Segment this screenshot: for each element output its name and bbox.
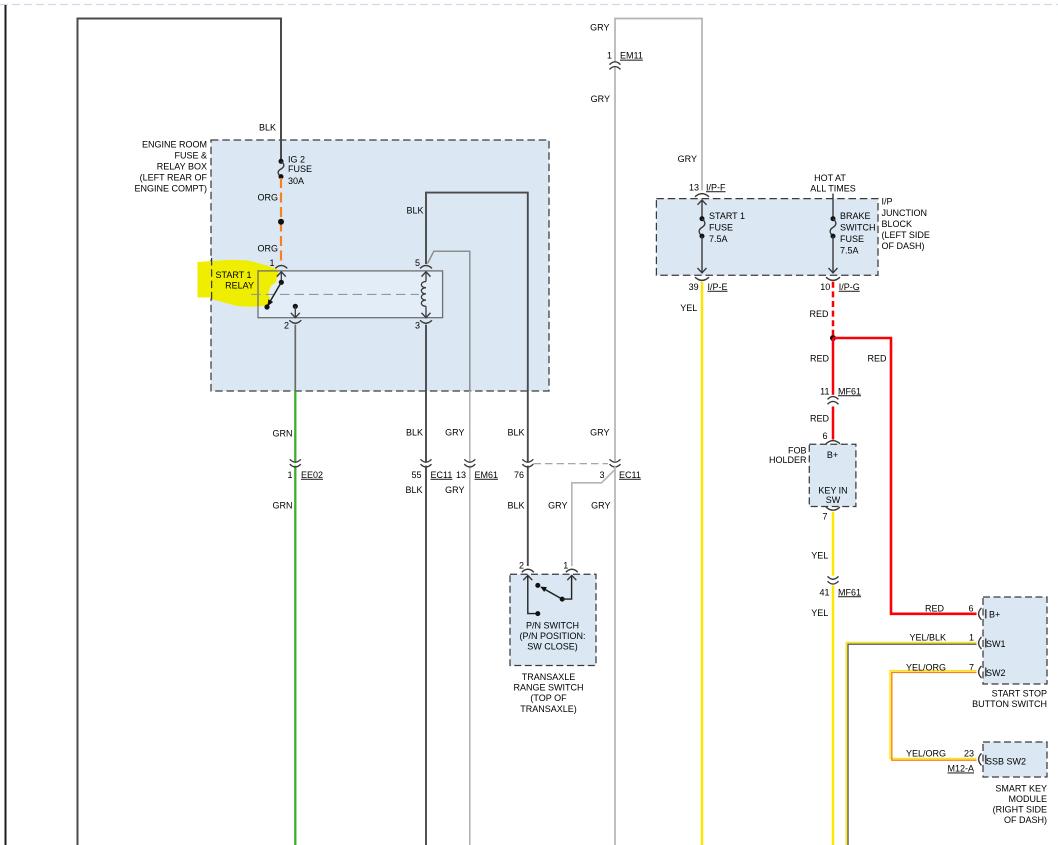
svg-text:BLK: BLK bbox=[507, 428, 524, 438]
svg-text:7: 7 bbox=[822, 512, 827, 522]
junction on ORG wire bbox=[278, 219, 284, 225]
wire BLK relay pin5 to transaxle switch pin2 bbox=[406, 193, 527, 566]
svg-text:GRY: GRY bbox=[445, 428, 464, 438]
wire GRY EC11-3 branch to transaxle pin 1 bbox=[548, 470, 615, 567]
svg-text:MODULE: MODULE bbox=[1008, 794, 1047, 804]
svg-text:OF DASH): OF DASH) bbox=[1004, 815, 1047, 825]
relay START 1 RELAY border and name bbox=[215, 270, 442, 318]
connector EC11 pin 55 bbox=[411, 459, 452, 480]
svg-text:RANGE SWITCH: RANGE SWITCH bbox=[513, 683, 583, 693]
svg-text:ENGINE COMPT): ENGINE COMPT) bbox=[134, 184, 207, 194]
connector M12-A pin 23 bbox=[947, 753, 985, 773]
svg-text:FOB: FOB bbox=[788, 446, 807, 456]
svg-text:11: 11 bbox=[820, 386, 829, 396]
FOB holder pin 6 bbox=[822, 431, 840, 444]
svg-text:YEL: YEL bbox=[811, 608, 828, 618]
svg-text:TRANSAXLE: TRANSAXLE bbox=[522, 672, 576, 682]
svg-text:BLK: BLK bbox=[405, 485, 422, 495]
svg-text:7.5A: 7.5A bbox=[709, 234, 728, 244]
svg-text:EM11: EM11 bbox=[620, 51, 643, 61]
svg-text:TRANSAXLE): TRANSAXLE) bbox=[520, 704, 577, 714]
svg-text:START STOP: START STOP bbox=[992, 689, 1047, 699]
connector EC11 pin 3 bbox=[599, 459, 640, 480]
svg-text:(P/N POSITION:: (P/N POSITION: bbox=[519, 631, 585, 641]
svg-text:1: 1 bbox=[969, 632, 974, 642]
svg-text:(TOP OF: (TOP OF bbox=[530, 693, 567, 703]
svg-text:BRAKE: BRAKE bbox=[840, 211, 871, 221]
wire RED junction to FOB holder B+ bbox=[810, 338, 833, 440]
relay pin 5 bbox=[415, 258, 432, 268]
svg-text:3: 3 bbox=[415, 321, 420, 331]
svg-text:(LEFT REAR OF: (LEFT REAR OF bbox=[140, 173, 208, 183]
relay coil bbox=[421, 272, 430, 318]
relay pin 2 bbox=[284, 304, 301, 331]
svg-text:SW CLOSE): SW CLOSE) bbox=[527, 642, 578, 652]
P/N switch contacts bbox=[528, 576, 572, 616]
wire YEL/ORG SW2 to smart key module bbox=[890, 662, 977, 760]
svg-text:GRY: GRY bbox=[548, 501, 567, 511]
svg-text:I/P: I/P bbox=[882, 197, 893, 207]
svg-text:EC11: EC11 bbox=[619, 470, 641, 480]
svg-text:7.5A: 7.5A bbox=[840, 246, 859, 256]
svg-text:JUNCTION: JUNCTION bbox=[882, 208, 928, 218]
svg-text:41: 41 bbox=[819, 587, 829, 597]
engine room fuse & relay box bbox=[134, 140, 549, 391]
svg-text:13: 13 bbox=[456, 470, 466, 480]
svg-text:RED: RED bbox=[810, 413, 830, 423]
svg-text:BLK: BLK bbox=[259, 123, 276, 133]
wire relay pin2 to EE02 then GRN down bbox=[273, 325, 296, 845]
svg-text:RED: RED bbox=[809, 309, 829, 319]
junction node RED bbox=[830, 335, 836, 341]
svg-text:EC11: EC11 bbox=[431, 470, 453, 480]
svg-text:BLK: BLK bbox=[406, 428, 423, 438]
svg-text:GRN: GRN bbox=[273, 501, 293, 511]
svg-text:BLK: BLK bbox=[507, 501, 524, 511]
svg-text:39: 39 bbox=[689, 282, 699, 292]
connector I/P-F pin 13 bbox=[689, 182, 726, 197]
svg-text:SSB SW2: SSB SW2 bbox=[986, 757, 1026, 767]
svg-text:FUSE &: FUSE & bbox=[174, 151, 207, 161]
wire YEL/BLK SW1 down left side bbox=[846, 632, 976, 845]
svg-text:M12-A: M12-A bbox=[947, 764, 974, 774]
connector at B+ pin 6 bbox=[979, 608, 986, 620]
svg-text:BLOCK: BLOCK bbox=[882, 219, 913, 229]
relay switch blade and contacts bbox=[264, 280, 284, 310]
svg-text:RED: RED bbox=[867, 353, 887, 363]
svg-text:30A: 30A bbox=[288, 176, 304, 186]
connector EC11 pin 76 bbox=[514, 459, 608, 480]
svg-text:1: 1 bbox=[563, 561, 568, 571]
svg-text:GRY: GRY bbox=[590, 428, 609, 438]
connector I/P-E pin 39 bbox=[689, 277, 728, 292]
svg-text:IG 2: IG 2 bbox=[288, 154, 305, 164]
connector MF61 pin 41 bbox=[819, 576, 861, 597]
svg-text:GRY: GRY bbox=[445, 485, 464, 495]
svg-text:GRN: GRN bbox=[273, 429, 293, 439]
svg-text:RED: RED bbox=[810, 353, 830, 363]
svg-text:MF61: MF61 bbox=[838, 587, 861, 597]
svg-text:RED: RED bbox=[925, 603, 945, 613]
svg-text:10: 10 bbox=[820, 282, 830, 292]
highlight marker START 1 RELAY bbox=[198, 260, 279, 307]
svg-text:HOLDER: HOLDER bbox=[769, 455, 807, 465]
svg-text:START 1: START 1 bbox=[709, 211, 745, 221]
svg-text:6: 6 bbox=[822, 431, 827, 441]
START STOP BUTTON SWITCH box bbox=[972, 597, 1047, 709]
connector EM11 pin 1 bbox=[607, 51, 643, 70]
svg-text:1: 1 bbox=[607, 51, 612, 61]
svg-text:YEL: YEL bbox=[680, 303, 697, 313]
svg-text:(LEFT SIDE: (LEFT SIDE bbox=[882, 230, 930, 240]
svg-text:I/P-F: I/P-F bbox=[706, 182, 726, 192]
svg-text:GRY: GRY bbox=[591, 501, 610, 511]
svg-text:GRY: GRY bbox=[678, 154, 697, 164]
svg-text:YEL: YEL bbox=[811, 550, 828, 560]
svg-text:BUTTON SWITCH: BUTTON SWITCH bbox=[972, 699, 1047, 709]
svg-text:GRY: GRY bbox=[591, 94, 610, 104]
svg-text:YEL/ORG: YEL/ORG bbox=[906, 662, 946, 672]
transaxle pin 2 bbox=[519, 561, 534, 581]
svg-text:SW1: SW1 bbox=[986, 639, 1006, 649]
svg-text:I/P-G: I/P-G bbox=[839, 282, 860, 292]
svg-text:1: 1 bbox=[287, 470, 292, 480]
svg-text:YEL/BLK: YEL/BLK bbox=[909, 632, 946, 642]
svg-text:ENGINE ROOM: ENGINE ROOM bbox=[142, 140, 207, 150]
svg-text:I/P-E: I/P-E bbox=[708, 282, 728, 292]
I/P junction block box bbox=[656, 197, 929, 276]
svg-text:RELAY: RELAY bbox=[225, 281, 254, 291]
wire GRY relay pin5 branch to EM61 bbox=[428, 251, 470, 845]
svg-text:OF DASH): OF DASH) bbox=[882, 241, 925, 251]
svg-text:3: 3 bbox=[599, 470, 604, 480]
connector at SW1 pin 1 bbox=[969, 632, 986, 649]
relay pin 3 bbox=[415, 320, 432, 330]
wire GRY from EM11 down and over to I/P-F bbox=[590, 19, 702, 845]
svg-text:FUSE: FUSE bbox=[840, 234, 864, 244]
svg-text:(RIGHT SIDE: (RIGHT SIDE bbox=[993, 805, 1047, 815]
svg-text:RELAY BOX: RELAY BOX bbox=[157, 162, 207, 172]
wire ORG fuse to relay pin 1 bbox=[257, 178, 281, 264]
svg-text:EM61: EM61 bbox=[475, 470, 499, 480]
engine room box dashed border segment over highlight bbox=[211, 258, 213, 300]
wire YEL MF61-41 down bbox=[811, 585, 833, 845]
svg-text:EE02: EE02 bbox=[301, 470, 323, 480]
wire YEL FOB pin7 to MF61-41 bbox=[811, 512, 833, 576]
fuse BRAKE SWITCH 7.5A bbox=[829, 211, 876, 273]
svg-text:5: 5 bbox=[415, 258, 420, 268]
wire RED junction to start stop button B+ bbox=[833, 338, 977, 614]
svg-text:ORG: ORG bbox=[257, 243, 278, 253]
FOB holder pin 7 bbox=[822, 507, 840, 522]
svg-text:START 1: START 1 bbox=[215, 270, 251, 280]
transaxle pin 1 bbox=[563, 561, 578, 581]
transaxle range switch box bbox=[510, 574, 596, 714]
svg-text:13: 13 bbox=[689, 182, 699, 192]
wire: left page-edge BLK wire bbox=[5, 5, 7, 845]
svg-text:SW2: SW2 bbox=[986, 668, 1006, 678]
svg-text:6: 6 bbox=[968, 603, 973, 613]
svg-text:76: 76 bbox=[514, 470, 524, 480]
svg-text:55: 55 bbox=[411, 470, 421, 480]
svg-text:B+: B+ bbox=[827, 450, 838, 460]
svg-text:KEY IN: KEY IN bbox=[818, 486, 847, 496]
fuse IG 2 30A bbox=[278, 154, 312, 186]
relay pin 1 bbox=[269, 258, 287, 282]
wire BLK battery feed to IG2 fuse bbox=[78, 19, 282, 845]
svg-text:ALL TIMES: ALL TIMES bbox=[810, 184, 856, 194]
relay START 1 RELAY box bbox=[258, 271, 443, 318]
connector EM61 pin 13 bbox=[456, 459, 498, 480]
HOT AT ALL TIMES feed bbox=[810, 173, 856, 219]
svg-text:FUSE: FUSE bbox=[288, 164, 312, 174]
wire YEL from I/P-E down bbox=[680, 282, 702, 845]
svg-text:FUSE: FUSE bbox=[709, 223, 733, 233]
wire relay pin3 BLK down bbox=[405, 325, 426, 845]
svg-text:B+: B+ bbox=[989, 610, 1000, 620]
svg-text:2: 2 bbox=[519, 561, 524, 571]
svg-text:HOT AT: HOT AT bbox=[814, 173, 846, 183]
svg-text:23: 23 bbox=[964, 749, 974, 759]
svg-text:SWITCH: SWITCH bbox=[840, 223, 876, 233]
connector MF61 pin 11 bbox=[820, 386, 861, 404]
svg-text:MF61: MF61 bbox=[838, 386, 861, 396]
svg-text:SW: SW bbox=[826, 495, 841, 505]
connector at SW2 pin 7 bbox=[969, 662, 986, 678]
svg-text:P/N SWITCH: P/N SWITCH bbox=[526, 621, 579, 631]
svg-text:GRY: GRY bbox=[590, 22, 609, 32]
wire RED dashed I/P-G to junction bbox=[809, 282, 833, 335]
svg-text:SMART KEY: SMART KEY bbox=[995, 784, 1047, 794]
svg-text:YEL/ORG: YEL/ORG bbox=[906, 749, 946, 759]
svg-text:2: 2 bbox=[284, 321, 289, 331]
connector EE02 pin 1 bbox=[287, 459, 323, 480]
svg-text:1: 1 bbox=[269, 258, 274, 268]
FOB HOLDER box bbox=[769, 444, 856, 506]
svg-text:ORG: ORG bbox=[257, 192, 278, 202]
fuse START 1 7.5A bbox=[698, 200, 746, 273]
SMART KEY MODULE box bbox=[983, 742, 1047, 825]
svg-text:BLK: BLK bbox=[406, 206, 423, 216]
connector I/P-G pin 10 bbox=[820, 277, 859, 292]
